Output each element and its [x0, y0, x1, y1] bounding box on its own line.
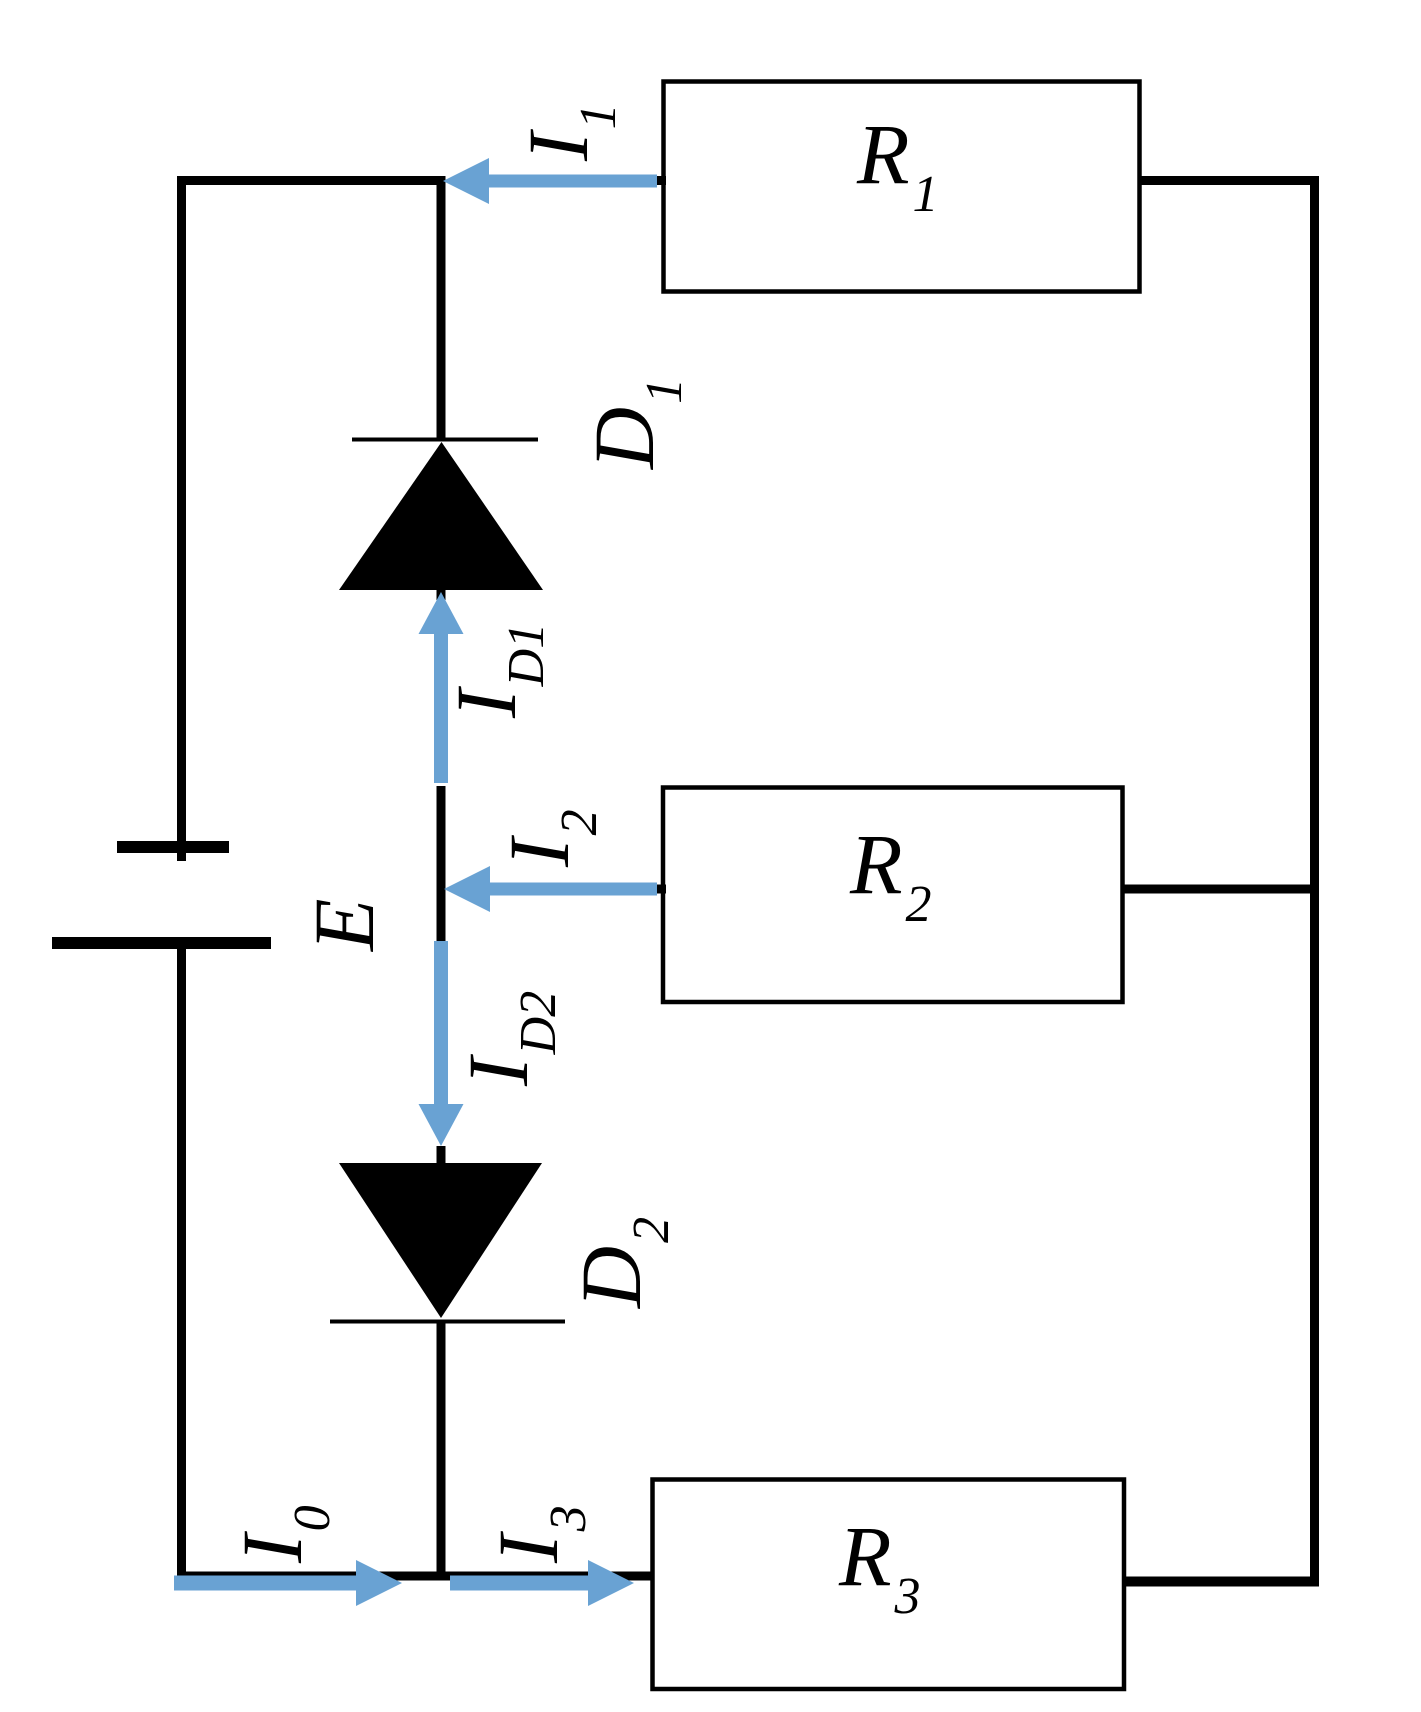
current arrow I3	[450, 1560, 634, 1606]
diode D1 cathode bar	[352, 438, 538, 442]
wire center stub above D2	[437, 1146, 446, 1165]
wire R2 left stub	[650, 885, 666, 894]
current arrow I2	[444, 866, 657, 912]
wire R2 right	[1122, 885, 1319, 894]
wire center vertical segment 3	[437, 1320, 446, 1581]
resistor R1 box	[664, 82, 1140, 292]
current arrow I0	[174, 1560, 402, 1606]
wire center stub below D1	[437, 590, 446, 600]
wire left vertical upper	[177, 176, 186, 861]
wire left vertical lower	[177, 949, 186, 1581]
diode D2 triangle	[339, 1163, 542, 1318]
diode D2 cathode bar	[330, 1320, 565, 1324]
wire bottom horizontal	[177, 1572, 652, 1581]
wire top horizontal	[177, 176, 446, 185]
wire center vertical segment 1	[437, 176, 446, 441]
battery E bottom plate	[52, 937, 271, 949]
svg-text:E: E	[296, 898, 392, 953]
wire R3 right	[1124, 1577, 1319, 1587]
current arrow ID1	[419, 592, 464, 783]
current arrow ID2	[419, 941, 464, 1146]
wire right bus	[1310, 176, 1319, 1587]
battery E top plate	[117, 841, 229, 853]
resistor R2 box	[663, 788, 1123, 1003]
wire R1 right	[1139, 176, 1319, 185]
wire center vertical segment 2	[437, 786, 446, 945]
wire R1 left stub	[648, 176, 666, 185]
current arrow I1	[443, 158, 657, 204]
resistor R3 box	[653, 1480, 1125, 1690]
diode D1 triangle	[339, 442, 543, 590]
